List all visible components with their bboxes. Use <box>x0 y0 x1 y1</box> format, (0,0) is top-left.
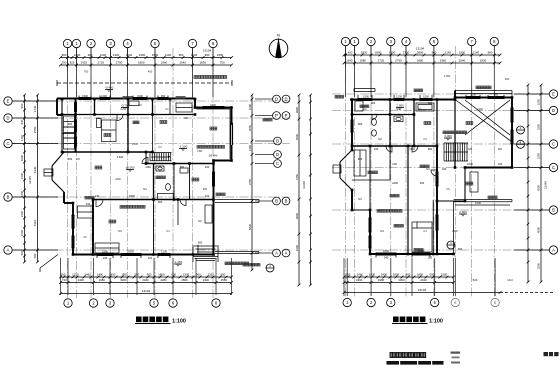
svg-text:240: 240 <box>95 194 100 198</box>
svg-text:2400: 2400 <box>392 181 398 185</box>
svg-text:120: 120 <box>148 256 153 260</box>
plan title, left plan <box>136 317 142 323</box>
svg-text:900: 900 <box>198 241 203 245</box>
dimension string row2, left plan bottom <box>61 282 232 284</box>
dimension string row1, left plan bottom <box>61 276 232 278</box>
garage door opening, left plan <box>231 125 233 145</box>
svg-text:1200: 1200 <box>20 190 24 197</box>
svg-text:B: B <box>276 139 279 144</box>
svg-text:1500: 1500 <box>418 249 424 253</box>
svg-text:3.000: 3.000 <box>444 134 452 138</box>
svg-text:1960: 1960 <box>440 59 447 63</box>
svg-text:1980: 1980 <box>360 59 367 63</box>
svg-text:450: 450 <box>148 70 153 74</box>
grid bubbles, between plans <box>273 95 281 103</box>
svg-text:11340: 11340 <box>544 181 548 189</box>
svg-text:240: 240 <box>103 256 108 260</box>
svg-text:120: 120 <box>498 162 503 166</box>
svg-text:900: 900 <box>20 103 24 108</box>
svg-text:E: E <box>7 99 10 104</box>
svg-text:900: 900 <box>406 272 411 276</box>
svg-text:900: 900 <box>196 272 201 276</box>
grid bubbles row, right plan bottom <box>343 298 351 306</box>
svg-text:240: 240 <box>374 147 379 151</box>
overall dimension line, right plan bottom <box>344 292 500 294</box>
svg-text:C: C <box>552 165 555 170</box>
staircase arrow, left plan <box>151 156 170 158</box>
dashed setback line, left plan <box>57 82 232 84</box>
svg-text:M1: M1 <box>138 104 142 107</box>
svg-text:1800: 1800 <box>158 272 165 276</box>
svg-text:900: 900 <box>498 148 503 151</box>
svg-text:900: 900 <box>20 250 24 255</box>
svg-text:1820: 1820 <box>361 51 368 55</box>
svg-text:400: 400 <box>348 51 353 55</box>
svg-text:N: N <box>277 33 280 38</box>
svg-text:3400: 3400 <box>78 278 85 282</box>
svg-text:1200: 1200 <box>72 272 79 276</box>
svg-text:1740: 1740 <box>33 105 37 112</box>
bathroom fixtures, left plan <box>166 184 171 191</box>
horizontal grid centre lines, right plan <box>332 93 549 95</box>
vertical dimension line 2, mid strip <box>310 95 312 285</box>
svg-text:1500: 1500 <box>441 272 448 276</box>
svg-text:5310: 5310 <box>33 219 37 226</box>
svg-text:2350: 2350 <box>537 152 541 159</box>
svg-text:900: 900 <box>358 122 363 126</box>
svg-text:1980: 1980 <box>378 278 385 282</box>
svg-text:20.4%: 20.4% <box>209 154 218 158</box>
svg-text:3900: 3900 <box>295 212 299 219</box>
svg-text:M2: M2 <box>184 117 188 120</box>
detail marker circle, left plan right <box>266 264 274 272</box>
roof slope diagonals, right plan <box>465 100 510 135</box>
svg-text:1830: 1830 <box>480 59 487 63</box>
svg-text:960: 960 <box>179 53 184 57</box>
svg-text:C: C <box>276 161 279 166</box>
svg-text:P: P <box>275 113 278 118</box>
svg-text:1980: 1980 <box>99 278 106 282</box>
svg-text:B: B <box>285 199 288 204</box>
svg-text:2100: 2100 <box>132 143 138 146</box>
svg-text:13104: 13104 <box>416 47 425 51</box>
dimension string row2, right plan top <box>344 62 500 64</box>
canopy lines, right plan top-left <box>354 88 375 90</box>
svg-text:3150: 3150 <box>295 173 299 180</box>
vertical dimension line 1, mid strip <box>298 95 300 285</box>
svg-text:925: 925 <box>70 61 75 65</box>
svg-text:960: 960 <box>205 53 210 57</box>
horizontal grid centre lines, left plan <box>12 100 290 102</box>
svg-text:1500: 1500 <box>129 194 135 198</box>
svg-text:P: P <box>285 113 288 118</box>
svg-text:1500: 1500 <box>217 53 224 57</box>
svg-text:2280: 2280 <box>160 278 167 282</box>
svg-text:1400: 1400 <box>97 272 104 276</box>
svg-text:1140: 1140 <box>191 53 198 57</box>
svg-text:1800: 1800 <box>121 272 128 276</box>
svg-text:A: A <box>285 251 288 256</box>
svg-text:A: A <box>552 248 555 253</box>
svg-text:D: D <box>6 116 9 121</box>
micro dimension ticks, left plan <box>78 96 80 99</box>
grid bubbles column, right plan right side <box>549 90 557 98</box>
svg-text:860: 860 <box>428 147 433 151</box>
svg-text:E: E <box>552 92 555 97</box>
entry steps, left plan bottom <box>194 245 217 247</box>
grid bubbles column, left plan left side <box>4 97 12 105</box>
grid bubbles row, right plan top <box>341 37 349 45</box>
svg-text:240: 240 <box>205 165 210 169</box>
svg-text:1.050: 1.050 <box>444 74 451 78</box>
svg-text:1800: 1800 <box>375 51 382 55</box>
svg-text:13104: 13104 <box>203 49 212 53</box>
svg-text:1400: 1400 <box>369 272 376 276</box>
wall junction column blobs, right plan <box>351 98 354 101</box>
svg-text:2040: 2040 <box>180 61 187 65</box>
svg-text:2100: 2100 <box>20 229 24 236</box>
svg-text:1830: 1830 <box>200 61 207 65</box>
svg-text:2040: 2040 <box>459 59 466 63</box>
svg-text:1260: 1260 <box>207 272 214 276</box>
door swing arcs, right plan <box>386 146 392 152</box>
svg-text:1140: 1140 <box>445 51 452 55</box>
svg-text:5220: 5220 <box>248 223 252 230</box>
svg-text:600: 600 <box>33 253 37 258</box>
vertical grid centre lines, left plan <box>67 48 69 298</box>
svg-text:900: 900 <box>458 247 463 251</box>
svg-text:D: D <box>284 97 287 102</box>
svg-text:900: 900 <box>158 200 163 204</box>
plan title, right plan <box>393 317 399 323</box>
kitchen window, left plan left wall <box>73 102 75 112</box>
svg-text:1960: 1960 <box>161 61 168 65</box>
svg-text:D: D <box>552 108 555 113</box>
svg-text:2100: 2100 <box>20 210 24 217</box>
svg-text:900: 900 <box>494 92 499 96</box>
dimension string row2, left plan top <box>61 64 232 66</box>
svg-text:4500: 4500 <box>295 133 299 140</box>
micro dimension ticks, right plan <box>357 95 359 98</box>
svg-text:2040: 2040 <box>420 278 427 282</box>
svg-text:1320: 1320 <box>113 53 120 57</box>
svg-text:700: 700 <box>62 61 67 65</box>
staircase hatch, right plan <box>443 143 445 161</box>
drawing number text <box>544 352 559 356</box>
svg-text:4000: 4000 <box>537 226 541 233</box>
svg-text:3800: 3800 <box>417 51 424 55</box>
svg-text:5340: 5340 <box>33 166 37 173</box>
svg-text:840: 840 <box>20 119 24 124</box>
vertical dimension line 2, left plan left <box>37 95 39 262</box>
svg-text:1200: 1200 <box>161 250 167 254</box>
interior walls, right plan <box>352 114 414 116</box>
svg-text:1500: 1500 <box>183 272 190 276</box>
dimension string row2, right plan bottom <box>344 282 454 284</box>
dashed setback tick marks, left plan <box>56 80 58 86</box>
grid extension lines, left plan top <box>67 48 69 67</box>
window symbols, right plan <box>358 97 372 99</box>
svg-text:1200: 1200 <box>101 94 107 98</box>
svg-text:2400: 2400 <box>115 178 121 181</box>
svg-text:1:100: 1:100 <box>429 319 443 325</box>
svg-text:600: 600 <box>221 272 226 276</box>
svg-text:2040: 2040 <box>142 278 149 282</box>
svg-text:D: D <box>275 97 278 102</box>
svg-text:3200: 3200 <box>537 262 541 269</box>
svg-text:-0.450: -0.450 <box>105 86 114 90</box>
svg-text:1500: 1500 <box>139 53 146 57</box>
svg-text:B: B <box>7 195 10 200</box>
svg-text:2790: 2790 <box>116 61 123 65</box>
svg-text:1710: 1710 <box>20 134 24 141</box>
svg-text:FM1: FM1 <box>198 150 204 153</box>
svg-text:11340: 11340 <box>28 176 32 184</box>
vertical dimension line 1, right plan right <box>527 85 529 282</box>
svg-text:2400: 2400 <box>452 230 458 233</box>
extension lines, right plan bottom <box>343 258 345 296</box>
svg-text:2400: 2400 <box>210 103 216 107</box>
svg-text:900: 900 <box>161 94 166 98</box>
svg-text:13104: 13104 <box>142 289 151 293</box>
svg-text:2550: 2550 <box>33 126 37 133</box>
furniture and closets, right plan <box>354 150 366 176</box>
svg-text:±0.000: ±0.000 <box>125 166 134 170</box>
svg-text:M0: M0 <box>96 117 100 120</box>
svg-text:M1: M1 <box>143 188 147 191</box>
svg-text:1800: 1800 <box>417 59 424 63</box>
svg-text:900: 900 <box>505 77 510 81</box>
svg-text:3900: 3900 <box>295 106 299 113</box>
terrace edge lines, right plan <box>454 199 512 201</box>
svg-text:900: 900 <box>371 101 376 105</box>
svg-text:C: C <box>6 141 9 146</box>
svg-text:M4: M4 <box>118 230 122 233</box>
svg-text:600: 600 <box>171 272 176 276</box>
interior walls, left plan <box>62 114 195 116</box>
svg-text:1725: 1725 <box>98 61 105 65</box>
vertical grid centre lines, right plan <box>345 46 347 298</box>
door swing arcs, left plan <box>117 115 123 121</box>
vertical dimension line, left plan right <box>251 95 253 270</box>
svg-text:500: 500 <box>346 272 351 276</box>
svg-text:-1.500: -1.500 <box>179 145 188 149</box>
svg-text:700: 700 <box>220 61 225 65</box>
svg-text:2420: 2420 <box>203 278 210 282</box>
svg-text:1140: 1140 <box>100 53 107 57</box>
svg-text:1500: 1500 <box>389 51 396 55</box>
svg-text:1140: 1140 <box>473 51 480 55</box>
svg-text:900: 900 <box>203 188 208 191</box>
svg-text:1140: 1140 <box>165 53 172 57</box>
svg-text:1460: 1460 <box>84 272 91 276</box>
svg-text:2100: 2100 <box>295 244 299 251</box>
vertical dimension line 1, left plan left <box>24 95 26 262</box>
svg-text:1500: 1500 <box>137 94 143 98</box>
svg-text:1500: 1500 <box>467 162 473 166</box>
svg-text:620: 620 <box>428 101 433 105</box>
room label text blobs, right plan <box>368 171 371 174</box>
north compass <box>269 39 288 58</box>
svg-text:1725: 1725 <box>378 59 385 63</box>
svg-text:3350: 3350 <box>537 123 541 130</box>
svg-text:240: 240 <box>442 167 447 171</box>
svg-text:1800: 1800 <box>393 272 400 276</box>
svg-text:2790: 2790 <box>395 59 402 63</box>
svg-text:2400: 2400 <box>381 272 388 276</box>
title block small text stack <box>451 352 461 354</box>
svg-text:1800: 1800 <box>383 249 389 253</box>
svg-text:700: 700 <box>84 70 89 74</box>
svg-text:3300: 3300 <box>398 278 405 282</box>
svg-text:600: 600 <box>68 157 73 161</box>
svg-text:1500: 1500 <box>82 94 88 98</box>
svg-text:500: 500 <box>61 272 66 276</box>
svg-text:1800: 1800 <box>138 61 145 65</box>
svg-text:900: 900 <box>147 272 152 276</box>
svg-text:M3: M3 <box>358 198 362 201</box>
svg-text:240: 240 <box>86 202 91 206</box>
svg-text:1460: 1460 <box>357 272 364 276</box>
svg-text:-1.450: -1.450 <box>174 260 183 264</box>
overall dimension line, left plan bottom <box>61 293 232 295</box>
outer walls, right plan <box>350 99 455 101</box>
svg-text:600: 600 <box>430 272 435 276</box>
svg-text:1200: 1200 <box>74 53 81 57</box>
note text 2-stair detail, left plan <box>194 76 197 79</box>
svg-text:M1: M1 <box>396 108 400 111</box>
svg-text:1500: 1500 <box>470 92 476 96</box>
svg-text:M5: M5 <box>468 148 472 151</box>
svg-text:C: C <box>552 142 555 147</box>
svg-text:M1: M1 <box>426 168 430 171</box>
svg-text:960: 960 <box>62 53 67 57</box>
svg-text:2.900: 2.900 <box>459 210 467 214</box>
svg-text:900: 900 <box>420 181 425 185</box>
svg-text:3750: 3750 <box>248 178 252 185</box>
svg-text:1500: 1500 <box>459 51 466 55</box>
porch edge lines, left plan right <box>215 199 259 201</box>
svg-text:A: A <box>7 248 10 253</box>
svg-text:13104: 13104 <box>418 288 427 292</box>
grid bubbles row, left plan top <box>63 39 71 47</box>
svg-text:14.0: 14.0 <box>507 278 513 282</box>
svg-text:1425: 1425 <box>81 61 88 65</box>
svg-text:120: 120 <box>205 194 210 198</box>
svg-text:1160: 1160 <box>145 165 151 169</box>
svg-text:960: 960 <box>488 51 493 55</box>
svg-text:M2: M2 <box>378 138 382 141</box>
grid bubbles row, left plan bottom <box>64 299 72 307</box>
svg-text:1160: 1160 <box>409 147 415 151</box>
overall dimension dashes, right plan bottom <box>500 292 553 294</box>
svg-text:240: 240 <box>384 255 389 259</box>
svg-text:420: 420 <box>88 53 93 57</box>
svg-text:2800: 2800 <box>181 278 188 282</box>
detail marker circles, right plan <box>517 126 525 134</box>
outer walls, left plan <box>57 98 195 100</box>
wall junction column blobs, left plan <box>61 98 64 101</box>
dimension string row1, right plan bottom <box>344 276 454 278</box>
furniture and closets, left plan <box>176 103 192 112</box>
svg-text:11340: 11340 <box>302 181 306 189</box>
svg-text:1200: 1200 <box>396 94 402 98</box>
svg-text:1140: 1140 <box>126 53 133 57</box>
svg-text:2100: 2100 <box>477 108 483 111</box>
bathroom fixtures, right plan <box>372 119 377 126</box>
svg-text:M2: M2 <box>198 220 202 223</box>
svg-text:4.600: 4.600 <box>117 155 124 159</box>
svg-text:1500: 1500 <box>423 94 429 98</box>
svg-text:1800: 1800 <box>417 272 424 276</box>
svg-text:FM1: FM1 <box>393 163 399 166</box>
svg-text:740: 740 <box>62 278 67 282</box>
svg-text:1200: 1200 <box>475 201 481 205</box>
svg-text:2550: 2550 <box>248 124 252 131</box>
svg-text:M3: M3 <box>76 158 80 161</box>
extension lines, left plan bottom <box>60 258 62 295</box>
dimension string row1, left plan top <box>61 57 232 59</box>
staircase hatch, left plan <box>149 153 151 161</box>
svg-text:2700: 2700 <box>403 51 410 55</box>
svg-text:4250: 4250 <box>537 184 541 191</box>
dimension string row1, right plan top <box>344 54 500 56</box>
svg-text:M4: M4 <box>380 230 384 233</box>
window symbols, left plan <box>79 96 91 98</box>
note text, right plan top <box>476 86 479 89</box>
staircase rail, right plan <box>444 151 468 153</box>
svg-text:1800: 1800 <box>128 250 134 254</box>
svg-text:1500: 1500 <box>363 94 369 98</box>
svg-text:B: B <box>552 208 555 213</box>
leader diagonal, left plan bottom-left <box>40 255 58 269</box>
svg-text:A: A <box>275 251 278 256</box>
svg-text:1650: 1650 <box>537 98 541 105</box>
svg-text:1:100: 1:100 <box>172 319 186 325</box>
svg-text:1500: 1500 <box>152 53 159 57</box>
vertical dimension line 2, right plan right <box>540 85 542 282</box>
svg-text:B: B <box>275 199 278 204</box>
svg-text:960: 960 <box>432 51 437 55</box>
closet boxes left wall, left plan <box>64 116 75 127</box>
svg-text:1140: 1140 <box>346 59 353 63</box>
svg-text:1000: 1000 <box>20 154 24 161</box>
title block company name <box>390 353 395 358</box>
svg-text:D: D <box>276 152 279 157</box>
svg-text:1680: 1680 <box>248 103 252 110</box>
svg-text:3300: 3300 <box>120 278 127 282</box>
svg-text:1380: 1380 <box>248 144 252 151</box>
svg-text:1550: 1550 <box>221 278 228 282</box>
kitchen counter, left plan <box>102 120 117 142</box>
svg-text:2100: 2100 <box>20 172 24 179</box>
svg-text:520: 520 <box>473 278 478 282</box>
svg-text:860: 860 <box>180 165 185 169</box>
svg-text:900: 900 <box>68 122 73 126</box>
svg-text:3400: 3400 <box>356 278 363 282</box>
room label text blobs, left plan <box>104 134 107 137</box>
